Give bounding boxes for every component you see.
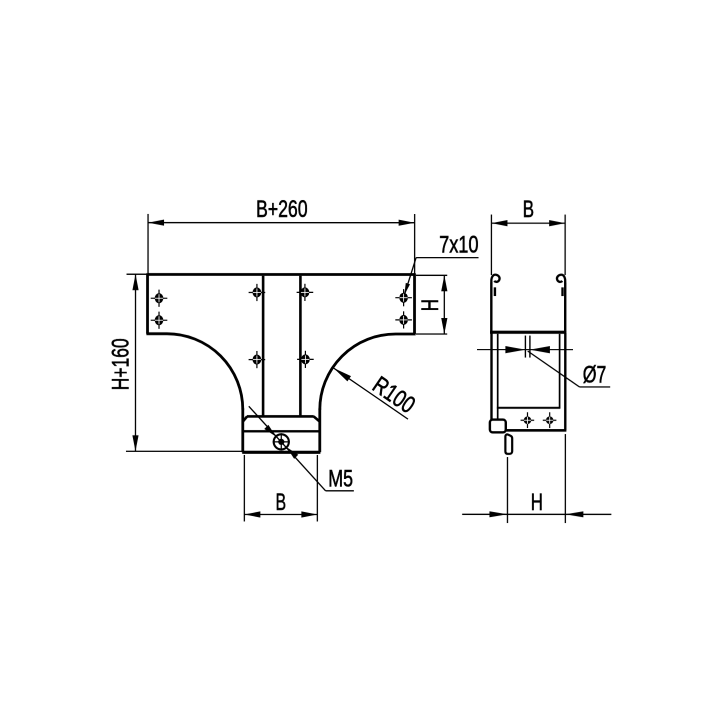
- svg-text:H+160: H+160: [107, 338, 134, 390]
- svg-text:M5: M5: [328, 466, 353, 493]
- hole side view right: [543, 412, 557, 428]
- flange bottom edge left with R100 fillet: [146, 334, 242, 410]
- slot edge tick right: [529, 336, 531, 358]
- clamp block right side: [318, 408, 321, 452]
- slot edge tick left: [524, 336, 526, 358]
- dimension H (bottom of side view): [462, 434, 611, 523]
- hole stem upper-right: [297, 284, 314, 301]
- centerline of slot: [477, 349, 573, 351]
- flange left edge: [146, 273, 149, 334]
- flange right edge: [413, 273, 416, 334]
- stirrup outer right edge: [564, 332, 566, 430]
- leader M5: [249, 406, 326, 491]
- svg-text:H: H: [417, 299, 444, 311]
- clamp block left side: [241, 408, 244, 452]
- hole top-right pair lower: [395, 311, 412, 328]
- hole stem upper-left: [249, 284, 266, 301]
- clamp block bottom edge: [242, 451, 320, 454]
- flange top edge: [148, 273, 415, 276]
- svg-text:B: B: [523, 196, 534, 223]
- left channel wall: [490, 283, 492, 333]
- stirrup inner right edge: [559, 334, 561, 408]
- hanging tab: [505, 434, 512, 453]
- slot arrow right: [530, 346, 550, 353]
- stem right edge: [299, 276, 302, 417]
- hole top-left pair lower: [151, 312, 168, 329]
- hole stem lower-left: [249, 351, 266, 368]
- hole top-left pair upper: [151, 290, 168, 307]
- svg-text:7x10: 7x10: [439, 232, 478, 259]
- leader R100: [333, 368, 408, 419]
- stirrup bottom strip edge: [505, 429, 566, 432]
- right channel wall: [564, 283, 566, 333]
- svg-text:H: H: [531, 489, 543, 516]
- right wall top hook: [557, 275, 565, 283]
- leader 7x10: [405, 258, 479, 294]
- slot arrow left: [505, 346, 525, 353]
- stem left edge: [262, 276, 265, 417]
- svg-text:B+260: B+260: [256, 196, 308, 223]
- svg-text:Ø7: Ø7: [583, 362, 607, 389]
- left wall top hook: [491, 275, 499, 283]
- leader Ø7: [528, 351, 580, 387]
- stirrup outer left edge: [490, 332, 492, 419]
- hole stem lower-right: [297, 351, 314, 368]
- hole top-right pair upper: [395, 289, 412, 306]
- dimension B (top of side view): [491, 215, 565, 276]
- clamp block top edge: [247, 415, 314, 418]
- svg-text:B: B: [276, 489, 287, 516]
- clamp block mid line: [243, 430, 320, 432]
- screw M5: [273, 433, 290, 450]
- dimension H+160: [126, 274, 243, 451]
- dimension B+260: [148, 214, 415, 274]
- left wall inner lip dash: [494, 287, 496, 296]
- rounded corner tab bottom-left: [490, 420, 506, 433]
- hole side view left: [521, 412, 535, 428]
- clamp block top-right chamfer: [314, 416, 320, 421]
- dimension H (flange height, left view): [416, 275, 447, 334]
- stirrup inner bottom: [497, 407, 561, 409]
- clamp block top-left chamfer: [243, 416, 247, 421]
- dimension B (bottom of left view): [244, 455, 317, 522]
- stirrup inner left edge: [497, 334, 499, 421]
- flange bottom edge right with R100 fillet: [320, 334, 416, 410]
- channel bottom: [490, 331, 566, 334]
- right wall inner lip dash: [561, 287, 563, 296]
